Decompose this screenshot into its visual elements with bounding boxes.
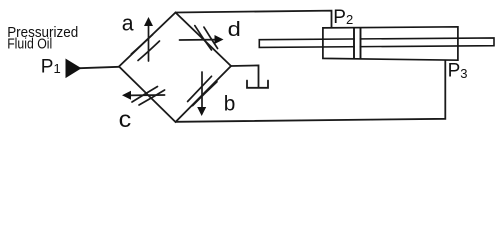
svg-text:Fluid Oil: Fluid Oil <box>7 36 52 53</box>
svg-text:P3: P3 <box>448 61 468 82</box>
svg-text:a: a <box>122 10 135 35</box>
svg-text:P2: P2 <box>333 7 353 28</box>
svg-text:c: c <box>119 106 132 131</box>
svg-text:d: d <box>228 19 241 41</box>
svg-text:b: b <box>224 92 236 116</box>
svg-text:P1: P1 <box>41 56 61 77</box>
